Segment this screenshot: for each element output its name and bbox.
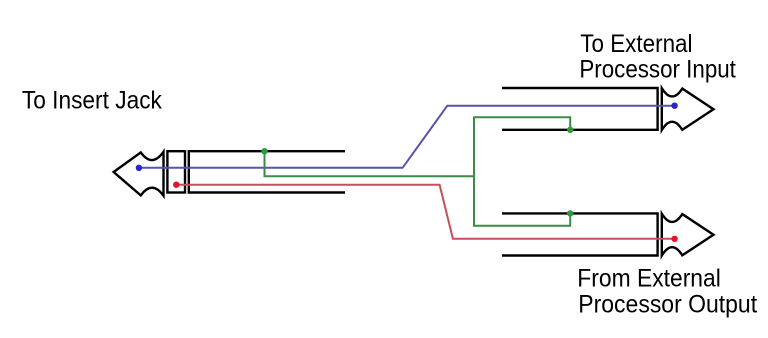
insert jack J1 tip (left-pointing plug tip): [114, 152, 164, 196]
svg-text:To External: To External: [580, 30, 692, 58]
node: J1 sleeve terminal (green dot): [261, 148, 267, 154]
external processor input jack J2 sleeve barrel (open left end): [502, 88, 658, 130]
wire: sleeve ground feed (green) from J1 sleeve to ground bus: [265, 151, 475, 176]
node: J2 tip terminal (blue dot): [671, 103, 677, 109]
insert jack J1 sleeve barrel (open right end): [189, 151, 345, 192]
external processor output jack J3 tip (right-pointing plug tip): [662, 214, 714, 256]
insert jack J1 ring band: [167, 151, 185, 192]
node: J1 tip terminal (blue dot): [136, 165, 142, 171]
svg-text:Processor Output: Processor Output: [578, 290, 757, 318]
label "From External Processor Output": [577, 265, 757, 319]
svg-text:To Insert Jack: To Insert Jack: [22, 87, 162, 115]
external processor output jack J3 sleeve barrel (open left end): [502, 213, 658, 255]
external processor input jack J2 tip (right-pointing plug tip): [662, 88, 714, 130]
svg-text:From External: From External: [577, 265, 721, 293]
node: J2 sleeve terminal (green dot): [567, 127, 573, 133]
node: J3 sleeve terminal (green dot): [567, 210, 573, 216]
svg-text:Processor Input: Processor Input: [579, 55, 736, 83]
node: J3 tip terminal (red dot): [671, 236, 677, 242]
wire: ring return (red) from J1 ring to J3 tip: [176, 185, 674, 239]
node: J1 ring terminal (red dot): [173, 182, 179, 188]
wire: sleeve ground bus (green) to J2 and J3 sleeves: [474, 117, 570, 226]
label "To External Processor Input": [579, 30, 736, 83]
wire: tip send (blue) from J1 tip to J2 tip: [139, 106, 675, 168]
